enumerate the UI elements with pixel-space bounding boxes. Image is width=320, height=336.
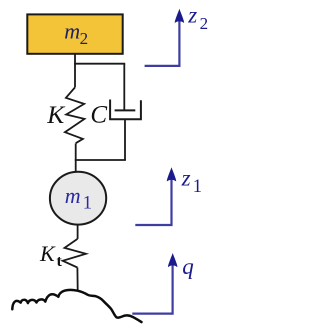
mass m2 xyxy=(27,14,122,53)
axis z2 arrow xyxy=(145,20,180,66)
mass m1 xyxy=(50,172,106,225)
svg-text:z: z xyxy=(181,166,191,191)
svg-text:1: 1 xyxy=(193,177,202,197)
svg-text:m: m xyxy=(64,19,80,44)
svg-text:K: K xyxy=(46,100,66,129)
svg-text:z: z xyxy=(187,3,197,28)
svg-text:C: C xyxy=(90,101,107,128)
damper C bottom rod xyxy=(124,119,126,160)
wire spring Kt bottom to road xyxy=(76,268,78,292)
spring Kt xyxy=(63,239,86,268)
svg-text:2: 2 xyxy=(200,14,209,33)
svg-text:q: q xyxy=(182,254,194,279)
wire mass m1 to spring Kt xyxy=(77,225,79,239)
axis z1 arrow xyxy=(135,178,171,225)
wire top junction horizontal xyxy=(74,63,125,65)
svg-text:1: 1 xyxy=(83,194,92,214)
wire box-bottom to top junction xyxy=(74,54,76,65)
road profile q xyxy=(12,290,141,322)
damper C cup xyxy=(110,100,141,120)
wire junction to spring K top xyxy=(74,64,76,88)
damper C piston plate xyxy=(115,109,136,111)
spring K xyxy=(65,87,85,143)
svg-text:m: m xyxy=(65,183,81,208)
wire spring K bottom to mass m1 xyxy=(75,143,77,172)
svg-text:t: t xyxy=(57,253,63,270)
damper C top rod xyxy=(123,64,125,111)
svg-text:2: 2 xyxy=(80,29,89,48)
wire bottom junction horizontal xyxy=(75,159,126,161)
svg-text:K: K xyxy=(39,241,56,266)
axis q arrow xyxy=(132,264,172,314)
